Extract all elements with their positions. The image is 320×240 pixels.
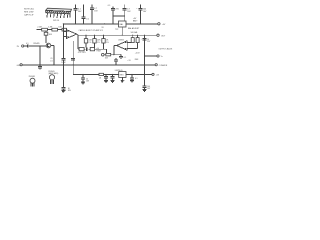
capacitor C18 on rail bottom xyxy=(143,86,151,90)
svg-text:1%: 1% xyxy=(97,42,100,44)
capacitor C3 xyxy=(90,5,98,24)
svg-text:2N5485: 2N5485 xyxy=(29,76,35,78)
transistor T2 package outline xyxy=(48,71,58,84)
svg-text:2.2M: 2.2M xyxy=(37,27,42,29)
svg-text:DIP-14: DIP-14 xyxy=(53,20,60,22)
regulator output wire xyxy=(126,73,145,75)
output terminal xyxy=(157,34,166,37)
op-amp U3 input wires xyxy=(63,32,66,37)
svg-text:TRIM: TRIM xyxy=(96,50,101,52)
divider bank vertical wires xyxy=(78,35,104,49)
IC U1 pins xyxy=(47,13,71,18)
ground bus xyxy=(22,64,155,66)
regulator U5 xyxy=(115,70,126,77)
capacitor C14 to ground xyxy=(81,74,90,84)
ground xyxy=(143,90,147,92)
capacitor C1 xyxy=(73,5,82,24)
svg-text:0.1: 0.1 xyxy=(86,18,89,20)
svg-text:4.7K 10%: 4.7K 10% xyxy=(78,52,86,54)
capacitor C19 xyxy=(85,46,88,51)
capacitor C6 xyxy=(133,5,147,24)
capacitor C2 xyxy=(82,5,89,24)
U4 input wires xyxy=(127,43,137,49)
capacitor C17 to ground xyxy=(130,74,138,82)
U4 output wire xyxy=(114,46,117,55)
capacitor C8 on vertical to ground bus xyxy=(50,24,65,65)
node link wire xyxy=(113,15,125,17)
input terminal J1 xyxy=(17,45,24,48)
svg-text:TP2: TP2 xyxy=(115,29,118,31)
svg-text:RES 1/4W: RES 1/4W xyxy=(24,11,33,13)
svg-text:0.1: 0.1 xyxy=(26,43,29,45)
IC U1 package outline xyxy=(46,8,72,14)
svg-text:1/4W: 1/4W xyxy=(61,62,65,64)
transistor Q1 xyxy=(33,43,51,48)
svg-text:LM394: LM394 xyxy=(118,39,124,41)
op-amp U3 xyxy=(67,29,103,38)
svg-text:50K BAL: 50K BAL xyxy=(131,31,138,34)
resistor R2 xyxy=(48,27,58,32)
labels near rail xyxy=(127,52,140,61)
terminal +5V xyxy=(144,73,160,76)
feedback capacitor C12 below line xyxy=(119,54,127,59)
resistor R9 xyxy=(136,35,139,42)
divider bottom wire xyxy=(78,49,107,53)
wire xyxy=(24,45,27,47)
svg-text:CA3140 BI-FET OP AMP IC1: CA3140 BI-FET OP AMP IC1 xyxy=(79,29,103,32)
resistor R1 xyxy=(37,27,47,32)
capacitor C10 on rail xyxy=(141,38,151,43)
svg-text:1%: 1% xyxy=(88,42,91,44)
capacitor C5 xyxy=(123,5,132,22)
feedback vertical wire with capacitor C9 xyxy=(71,41,75,74)
resistor R7 xyxy=(102,39,109,44)
resistor chain wire xyxy=(37,29,67,31)
divider labels xyxy=(96,48,101,52)
svg-text:1%: 1% xyxy=(106,42,109,44)
resistor R6 xyxy=(93,39,101,44)
bias branch wire with capacitor xyxy=(38,46,42,70)
svg-text:BAL ADJUST: BAL ADJUST xyxy=(128,27,140,30)
resistor R10 xyxy=(99,73,104,79)
balance trimmer box U2 xyxy=(115,21,140,31)
wire xyxy=(29,45,46,47)
op-amp U4 xyxy=(117,39,128,50)
resistor R11 xyxy=(79,48,84,51)
node dots on output line xyxy=(77,35,145,36)
capacitor C7 xyxy=(26,43,29,47)
level line with source follower xyxy=(102,53,121,59)
capacitor C4 xyxy=(108,5,120,24)
svg-text:2N5485: 2N5485 xyxy=(33,43,39,45)
capacitor C15 to ground xyxy=(104,74,108,82)
right vertical rail xyxy=(144,35,146,86)
capacitor C11 above ground bus xyxy=(114,58,118,65)
capacitor C13 to ground xyxy=(61,65,71,92)
ground bus right terminal xyxy=(155,64,168,67)
regulator ground lead xyxy=(120,77,124,82)
resistor R12 xyxy=(90,48,94,51)
wire Q1 to ground bus xyxy=(51,46,54,65)
net label 9V xyxy=(102,23,106,29)
svg-text:CAP IN uF: CAP IN uF xyxy=(24,13,34,16)
terminal V+ xyxy=(144,55,164,58)
svg-text:NOTE: ALL: NOTE: ALL xyxy=(24,7,35,10)
resistor R4 xyxy=(44,31,53,43)
svg-text:0.1: 0.1 xyxy=(135,78,138,80)
resistor R3 xyxy=(58,27,66,32)
node dots on top bus xyxy=(75,23,141,24)
op-amp output line xyxy=(77,34,157,35)
lower supply line xyxy=(73,73,119,75)
svg-text:0.1: 0.1 xyxy=(124,57,127,59)
svg-text:+4.5V: +4.5V xyxy=(135,52,141,54)
svg-text:BATT: BATT xyxy=(133,20,139,23)
svg-text:+: + xyxy=(85,46,86,48)
node dots on ground bus xyxy=(39,64,145,65)
svg-text:OUTPUT JACKS: OUTPUT JACKS xyxy=(159,47,173,50)
svg-text:COMMON: COMMON xyxy=(159,65,168,67)
capacitor C16 to ground xyxy=(111,74,115,82)
svg-text:2.2M: 2.2M xyxy=(48,27,53,29)
svg-text:0.1: 0.1 xyxy=(108,5,111,7)
resistor R8 xyxy=(131,35,134,42)
transistor T1 package outline xyxy=(29,76,35,87)
top supply bus wire xyxy=(63,23,158,25)
terminal B+ xyxy=(158,23,166,26)
note text block xyxy=(24,7,35,16)
svg-text:(MATCHED): (MATCHED) xyxy=(48,72,58,75)
resistor R5 xyxy=(84,39,92,44)
svg-text:0.1: 0.1 xyxy=(50,60,53,62)
svg-text:BAL: BAL xyxy=(120,23,124,26)
ground terminal xyxy=(17,64,23,67)
wire from box to output line xyxy=(121,27,123,35)
